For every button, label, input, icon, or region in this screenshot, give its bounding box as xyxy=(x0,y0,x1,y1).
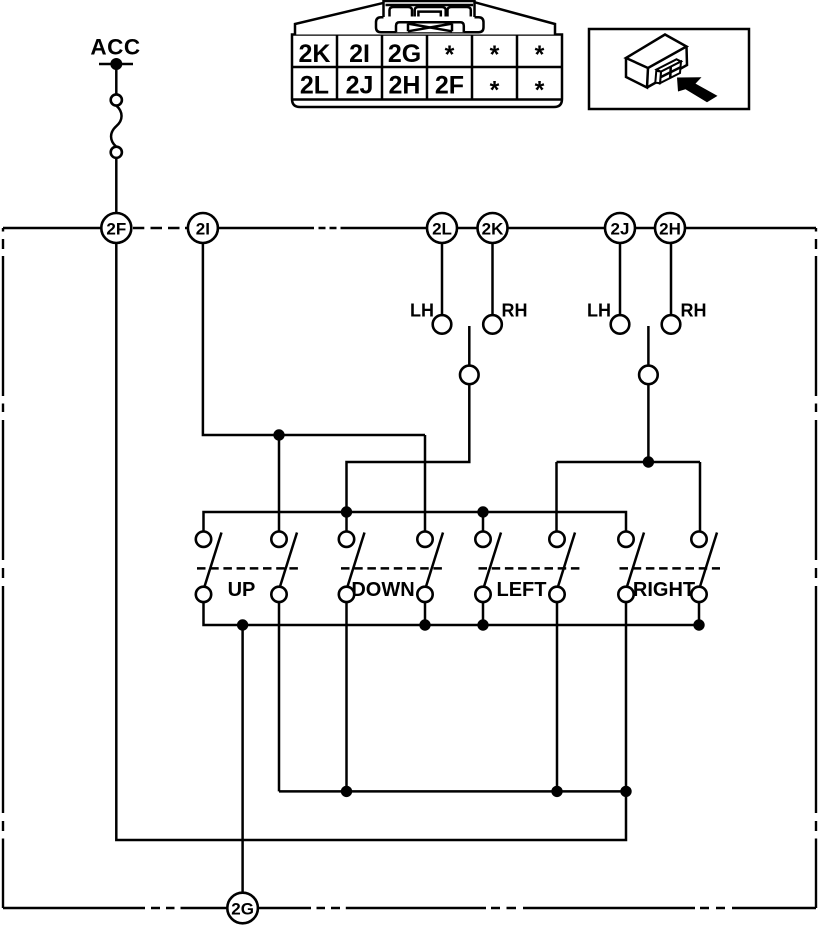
svg-text:*: * xyxy=(490,41,500,69)
svg-text:*: * xyxy=(445,41,455,69)
contact RH (right group) xyxy=(662,315,681,334)
junction dot lower RIGHT xyxy=(620,786,631,797)
svg-text:2J: 2J xyxy=(611,219,630,238)
ground rail below switches xyxy=(204,602,700,625)
svg-text:2F: 2F xyxy=(435,71,464,99)
wire RIGHT pole1 down xyxy=(625,602,628,791)
junction dot LEFT pole1 xyxy=(477,619,488,630)
junction dot lower DOWN xyxy=(341,786,352,797)
mechanical link dashed UP xyxy=(197,567,298,570)
junction dot DOWN pole2 xyxy=(419,619,430,630)
wire fusible link to 2F xyxy=(115,158,118,213)
svg-text:2I: 2I xyxy=(349,40,370,68)
switch unit boundary: right border xyxy=(815,228,817,908)
contact LH (right group) xyxy=(611,315,630,334)
switch DOWN pole2 top contact xyxy=(417,532,432,547)
switch DOWN pole2 bottom contact xyxy=(417,587,432,602)
wire DOWN pole2 to rail xyxy=(424,602,427,625)
svg-text:2F: 2F xyxy=(106,219,126,238)
wire 2J to LH contact xyxy=(619,243,622,315)
svg-text:UP: UP xyxy=(228,579,256,601)
switch LEFT pole1 top contact xyxy=(475,532,490,547)
wire 2I to switch feed xyxy=(203,243,425,435)
mechanical link dashed RIGHT xyxy=(620,567,721,570)
connector pin-grid box outline xyxy=(292,35,562,108)
supply rail above switches xyxy=(204,512,627,531)
switch UP pole2 top contact xyxy=(271,532,286,547)
switch unit boundary: bottom border xyxy=(3,907,816,909)
switch UP pole1 top contact xyxy=(196,532,211,547)
wire changeover common to LEFT/UP poles xyxy=(347,384,470,531)
legend arrow xyxy=(677,77,718,102)
svg-text:2H: 2H xyxy=(659,219,681,238)
switch UP pole2 bottom contact xyxy=(271,587,286,602)
changeover common contact (left group) xyxy=(460,366,479,385)
switch LEFT pole1 bottom contact xyxy=(475,587,490,602)
connector housing trapezoid top xyxy=(295,1,555,35)
mechanical link dashed LEFT xyxy=(479,567,584,570)
svg-text:RIGHT: RIGHT xyxy=(633,579,695,601)
svg-text:2L: 2L xyxy=(300,71,329,99)
cross wire lower xyxy=(279,790,626,793)
svg-text:ACC: ACC xyxy=(90,35,140,60)
fusible link bottom terminal xyxy=(111,147,122,158)
wire 2K to RH contact xyxy=(491,243,494,315)
switch DOWN pole1 top contact xyxy=(339,532,354,547)
wire DOWN pole1 down xyxy=(345,602,348,791)
svg-text:2J: 2J xyxy=(346,71,374,99)
wire rail to 2G xyxy=(241,625,244,893)
svg-text:2K: 2K xyxy=(482,219,504,238)
switch DOWN pole1 bottom contact xyxy=(339,587,354,602)
svg-text:2K: 2K xyxy=(299,40,331,68)
svg-text:2L: 2L xyxy=(432,219,452,238)
connector terminal 2G xyxy=(227,893,258,924)
svg-text:LEFT: LEFT xyxy=(497,579,547,601)
svg-text:2G: 2G xyxy=(388,40,421,68)
contact RH (left group) xyxy=(483,315,502,334)
contact LH (left group) xyxy=(433,315,452,334)
wire to DOWN pole 2 xyxy=(424,435,427,531)
changeover arm (left group) xyxy=(468,326,471,365)
svg-text:DOWN: DOWN xyxy=(351,579,414,601)
connector terminal 2H xyxy=(655,213,685,243)
switch blades xyxy=(204,533,717,588)
wire 2L to LH contact xyxy=(441,243,444,315)
legend box xyxy=(589,29,749,109)
connector collar band xyxy=(376,17,484,32)
wire LEFT pole1 to rail xyxy=(482,602,485,625)
ACC supply tick xyxy=(99,63,133,66)
fusible link top terminal xyxy=(111,94,122,105)
junction dot right common xyxy=(643,456,654,467)
svg-text:*: * xyxy=(490,77,500,105)
ACC node dot xyxy=(110,58,122,70)
svg-text:LH: LH xyxy=(410,301,434,321)
connector terminal 2K xyxy=(478,213,508,243)
junction dot 2I branch xyxy=(273,429,284,440)
svg-text:RH: RH xyxy=(681,301,707,321)
fusible link wavy element xyxy=(111,106,122,147)
switch unit boundary: left border xyxy=(2,228,4,908)
switch UP pole1 bottom contact xyxy=(196,587,211,602)
svg-text:2G: 2G xyxy=(231,899,254,918)
changeover common contact (right group) xyxy=(639,366,658,385)
switch RIGHT pole2 bottom contact xyxy=(691,587,706,602)
svg-text:*: * xyxy=(535,41,545,69)
mechanical link dashed DOWN xyxy=(341,567,443,570)
svg-text:2H: 2H xyxy=(389,71,421,99)
changeover arm (right group) xyxy=(647,326,650,365)
wire LEFT pole2 down xyxy=(556,602,559,791)
connector terminal 2L xyxy=(427,213,457,243)
junction dot 2G tap xyxy=(237,619,248,630)
switch unit boundary: top border xyxy=(3,227,816,229)
switch LEFT pole2 bottom contact xyxy=(549,587,564,602)
switch RIGHT pole1 bottom contact xyxy=(618,587,633,602)
wire 2F down left side xyxy=(116,243,626,840)
wire ACC to fusible link xyxy=(115,64,118,95)
connector terminal 2I xyxy=(188,213,218,243)
junction dot rail xyxy=(477,506,488,517)
junction dot RIGHT pole2 xyxy=(693,619,704,630)
connector key X-box xyxy=(396,22,464,32)
svg-text:RH: RH xyxy=(502,301,528,321)
wire 2H to RH contact xyxy=(670,243,673,315)
switch RIGHT pole1 top contact xyxy=(618,532,633,547)
connector latch block xyxy=(384,1,475,17)
rail stub to LEFT pole 1 xyxy=(482,512,485,531)
wire branch to UP pole 2 xyxy=(278,435,281,531)
connector terminal 2J xyxy=(605,213,635,243)
junction dot rail tap xyxy=(341,506,352,517)
svg-text:LH: LH xyxy=(587,301,611,321)
wire UP pole2 down xyxy=(278,602,281,791)
legend relay 3D icon xyxy=(626,35,687,88)
switch RIGHT pole2 top contact xyxy=(691,532,706,547)
junction dot lower LEFT xyxy=(551,786,562,797)
wire changeover common right group xyxy=(557,384,701,531)
connector terminal 2F xyxy=(101,213,131,243)
svg-text:*: * xyxy=(535,77,545,105)
svg-text:2I: 2I xyxy=(196,219,210,238)
switch LEFT pole2 top contact xyxy=(549,532,564,547)
